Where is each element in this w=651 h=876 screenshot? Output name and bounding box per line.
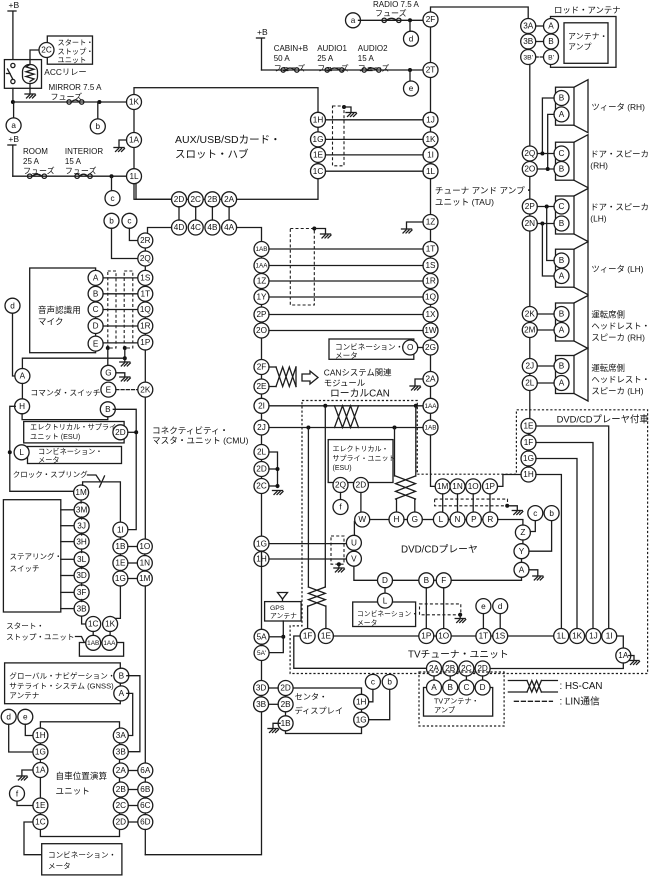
node f below ESU	[340, 493, 342, 500]
svg-text:B: B	[559, 310, 565, 319]
svg-text:2M: 2M	[524, 326, 536, 335]
connector L to combination meter	[384, 588, 386, 593]
svg-text:Z: Z	[520, 528, 525, 537]
headrest LH connectors B A	[554, 359, 569, 374]
connectors 1AA 1AB TAU	[423, 398, 438, 413]
svg-text:+B: +B	[9, 0, 20, 10]
svg-text:AUX/USB/SDカード・: AUX/USB/SDカード・	[175, 134, 281, 146]
CMU side chain 1O-1N-1M and down	[144, 554, 146, 556]
svg-text:アンテナ: アンテナ	[9, 691, 39, 700]
connectors CMU 1AB 1AA 1Z 1Y 2P 2O	[254, 242, 269, 257]
connectors 2J 2L TAU	[522, 359, 537, 374]
svg-text:1B: 1B	[115, 542, 126, 551]
GPS antenna box	[265, 602, 302, 621]
wire 1E to 1P	[333, 635, 418, 637]
CMU mic side connectors 1S 1T 1Q 1R 1P	[138, 270, 153, 285]
CMU pin chain left column upper	[144, 241, 146, 351]
svg-text:1AB: 1AB	[424, 425, 436, 432]
svg-text:1W: 1W	[424, 326, 437, 335]
svg-text:3A: 3A	[523, 22, 534, 31]
DVD player connectors U V	[353, 522, 355, 536]
local CAN pair down to TV 1F 1E	[307, 428, 309, 588]
ESU box center	[328, 440, 393, 483]
steering connectors 3M 3J 3H 3L 3D 3F 3B	[61, 509, 74, 511]
dashed boundary DVD/CD player equipped vehicles	[290, 401, 647, 674]
svg-text:5A: 5A	[257, 632, 268, 641]
svg-text:b: b	[387, 678, 392, 687]
svg-text:1K: 1K	[105, 620, 116, 629]
svg-text:G: G	[412, 515, 418, 524]
svg-text:Y: Y	[519, 547, 525, 556]
svg-text:d: d	[6, 712, 11, 721]
svg-text:アンテナ: アンテナ	[270, 612, 297, 620]
wire ROOM/INTERIOR fuse row to 1L	[13, 175, 127, 177]
svg-text:H: H	[394, 515, 400, 524]
wire 1L to 2D row	[136, 184, 172, 200]
svg-text:ロッド・アンテナ: ロッド・アンテナ	[554, 5, 621, 15]
connector 1M clock spring	[74, 485, 89, 500]
wires AUX to TAU 1H-1J 1G-1K 1E-1I 1C-1L	[326, 119, 424, 121]
clock spring wire 1M up over to 1I	[83, 482, 121, 522]
svg-text:6C: 6C	[140, 801, 151, 810]
svg-text:e: e	[23, 712, 28, 721]
svg-text:運転席側: 運転席側	[591, 363, 625, 373]
svg-text:スイッチ: スイッチ	[10, 564, 40, 573]
node a	[13, 102, 15, 118]
wires B F down to TV tuner 1P 1O	[425, 588, 427, 629]
svg-text:2O: 2O	[524, 165, 535, 174]
wire +B row to 1K with MIRROR fuse	[13, 101, 127, 103]
svg-text:B: B	[559, 165, 565, 174]
svg-text:RADIO 7.5 A: RADIO 7.5 A	[373, 0, 419, 9]
shield dashed box on U V wires	[331, 536, 344, 564]
wire coil top to 2C of start-stop unit	[30, 50, 39, 65]
CMU pin chain right column	[261, 249, 263, 545]
svg-text:U: U	[351, 538, 357, 547]
wires CMU 1G/1H to U V of DVD player	[269, 543, 346, 545]
svg-text:4D: 4D	[174, 223, 185, 232]
svg-text:1K: 1K	[572, 632, 583, 641]
svg-text:2N: 2N	[525, 219, 536, 228]
svg-text:1Q: 1Q	[425, 293, 436, 302]
svg-text:3J: 3J	[77, 521, 86, 530]
display connectors 1H 1G right	[354, 694, 369, 709]
antenna amp outer box	[551, 17, 617, 68]
svg-text:メータ: メータ	[48, 862, 71, 871]
connectors 2P 2N TAU	[522, 199, 537, 214]
shield dashed box on DVD L-R stubs	[435, 499, 508, 506]
connector 2C start-stop unit	[39, 43, 54, 58]
svg-text:フューズ: フューズ	[375, 8, 407, 18]
svg-text:TVチューナ・ユニット: TVチューナ・ユニット	[408, 649, 509, 661]
svg-text:G: G	[105, 368, 111, 377]
svg-text:GPS: GPS	[270, 605, 285, 612]
connector 2T TAU	[423, 63, 438, 78]
svg-text:6B: 6B	[140, 785, 151, 794]
svg-text:1G: 1G	[523, 454, 534, 463]
svg-text:グローバル・ナビゲーション・: グローバル・ナビゲーション・	[9, 671, 115, 681]
svg-text:2D: 2D	[356, 481, 367, 490]
svg-text:INTERIOR: INTERIOR	[65, 147, 103, 156]
unit connectors right 3A 3B 2A 2B 2C 2D	[113, 728, 128, 743]
svg-text:1P: 1P	[140, 338, 151, 347]
svg-text:E: E	[106, 385, 112, 394]
svg-text:L: L	[439, 515, 444, 524]
nodes c b to display	[365, 674, 380, 689]
svg-text:1L: 1L	[129, 172, 139, 181]
ESU connectors 2Q 2D	[333, 478, 348, 493]
stub wires 1M-L 1N-N 1O-P 1P-R	[442, 494, 444, 512]
connectors 1C 1K start-stop	[86, 617, 101, 632]
start-stop unit box (top)	[47, 36, 92, 64]
CAN twisted pair to CAN system modules	[269, 366, 276, 368]
svg-text:ドア・スピーカ: ドア・スピーカ	[590, 149, 649, 159]
svg-text:1E: 1E	[313, 151, 324, 160]
wire 1G down to 1K	[110, 586, 120, 618]
svg-text:A: A	[559, 326, 565, 335]
svg-text:e: e	[481, 602, 486, 611]
steering side chain 1I-1B-1E-1G	[119, 537, 121, 539]
node b	[97, 102, 99, 119]
wire F to A	[451, 577, 521, 580]
pair wires 2x-6x	[128, 770, 138, 772]
tweeter RH connectors B A	[554, 91, 569, 106]
chain stubs between option connectors	[528, 434, 530, 436]
svg-text:CANシステム関連: CANシステム関連	[324, 368, 392, 378]
connector L combination meter	[14, 445, 29, 460]
connectors 2R 2Q CMU	[138, 233, 153, 248]
tweeter RH speaker icon	[556, 80, 589, 133]
svg-text:1T: 1T	[141, 289, 151, 298]
wire coil to ground	[29, 84, 31, 95]
stub wires 2x to letter connectors	[433, 676, 435, 680]
svg-text:コンビネーション・: コンビネーション・	[48, 851, 116, 860]
svg-text:2K: 2K	[525, 310, 536, 319]
svg-text:3M: 3M	[76, 505, 88, 514]
svg-text:1H: 1H	[523, 470, 534, 479]
svg-text:3H: 3H	[76, 537, 87, 546]
commander switch connector E dashed LIN to 2K	[101, 382, 116, 397]
svg-text:チューナ アンド アンプ・: チューナ アンド アンプ・	[435, 186, 533, 196]
connector 2A TAU with ground	[423, 372, 438, 387]
svg-text:マイク: マイク	[38, 317, 64, 327]
connectors 2Q 2O TAU speaker out	[522, 146, 537, 161]
wire 2F up to rod antenna 3A	[431, 7, 529, 19]
svg-text:1G: 1G	[356, 715, 367, 724]
svg-text:d: d	[10, 301, 15, 310]
svg-text:2J: 2J	[525, 362, 534, 371]
connectors 2L 2D 2C CMU grounded	[254, 445, 269, 460]
svg-text:b: b	[96, 122, 101, 131]
DVD player connectors W H G L N P R	[355, 512, 370, 527]
chain 6A-6D and down wire to CMU bus	[144, 778, 146, 782]
svg-text:A: A	[548, 22, 554, 31]
bus segments through 5A 5A'	[261, 644, 263, 645]
voice mic box	[30, 268, 96, 353]
svg-text:マスタ・ユニット (CMU): マスタ・ユニット (CMU)	[152, 436, 249, 446]
headrest speaker LH icon	[556, 348, 589, 401]
svg-text:コンビネーション・: コンビネーション・	[357, 609, 418, 618]
connectors 2D 2C 2B 2A AUX hub bottom	[172, 192, 187, 207]
svg-text:ステアリング・: ステアリング・	[10, 551, 63, 561]
wires 2L 2D 2C to common ground	[269, 452, 278, 488]
svg-text:a: a	[351, 16, 356, 25]
wires mic to CMU	[103, 277, 138, 279]
svg-text:1T: 1T	[479, 632, 489, 641]
DVD bottom connectors D B F	[378, 573, 393, 588]
door speaker RH connectors C B	[554, 146, 569, 161]
wire e to 1H	[25, 724, 33, 735]
svg-text:C: C	[93, 305, 99, 314]
svg-text:DVD/CDプレーヤ付車: DVD/CDプレーヤ付車	[557, 414, 649, 425]
svg-text:スロット・ハブ: スロット・ハブ	[175, 148, 249, 161]
svg-text:2L: 2L	[257, 448, 267, 457]
svg-text:1L: 1L	[557, 632, 567, 641]
combination meter box bottom	[42, 844, 122, 875]
local CAN pair down to ESU H G	[394, 428, 396, 477]
svg-text:A: A	[559, 110, 565, 119]
svg-text:1J: 1J	[426, 115, 435, 124]
svg-text:2C: 2C	[256, 482, 267, 491]
speaker bus from 3B' down TAU right side	[527, 33, 529, 36]
commander switch connector G with grounds	[107, 348, 109, 365]
svg-text:1E: 1E	[321, 632, 332, 641]
AUX/USB/SD card slot hub unit box	[134, 88, 318, 200]
wire 1S to 1L	[508, 635, 554, 637]
svg-text:1B: 1B	[281, 719, 292, 728]
svg-text:2C: 2C	[116, 801, 127, 810]
svg-text:AUDIO1: AUDIO1	[317, 44, 347, 53]
svg-text:P: P	[471, 515, 477, 524]
svg-text:B: B	[105, 405, 111, 414]
mic shield dashed boxes	[108, 271, 116, 348]
wires W-H G-L chain	[370, 519, 389, 521]
svg-text:2D: 2D	[256, 465, 267, 474]
wires 3A-A 3B-B	[536, 25, 544, 27]
svg-text:B: B	[548, 37, 554, 46]
svg-text:ユニット (ESU): ユニット (ESU)	[30, 432, 80, 441]
svg-text:D: D	[93, 322, 99, 331]
svg-text:コネクティビティ・: コネクティビティ・	[152, 426, 228, 436]
wires CMU to TAU rows	[269, 248, 423, 250]
wires 2K-B 2M-A	[537, 313, 554, 315]
nodes d e bottom	[1, 709, 16, 724]
svg-text:3D: 3D	[76, 571, 87, 580]
svg-text:1M: 1M	[437, 482, 449, 491]
start-stop connector box with 1AB 1AA	[92, 632, 94, 636]
svg-text:2J: 2J	[257, 423, 266, 432]
svg-text:c: c	[127, 216, 131, 225]
connector pair 1I	[113, 522, 128, 537]
svg-text:1A: 1A	[129, 136, 140, 145]
svg-text:2K: 2K	[140, 385, 151, 394]
DVD option connectors 1E 1F 1G 1H	[521, 419, 536, 434]
svg-text:TVアンテナ・: TVアンテナ・	[434, 697, 479, 706]
wire V down to D B F A chain	[354, 566, 378, 580]
DVD player connectors Z Y A right	[515, 525, 530, 540]
wire R to Z	[498, 520, 523, 526]
svg-text:3L: 3L	[77, 555, 87, 564]
svg-text:d: d	[498, 602, 503, 611]
ground for 1A	[22, 770, 33, 776]
svg-text:4B: 4B	[207, 223, 218, 232]
TV antenna amp box	[424, 688, 493, 717]
node d to commander A	[5, 298, 20, 313]
wires 2J-B 2L-A	[537, 365, 554, 367]
svg-text:F: F	[441, 576, 446, 585]
wire 4A to CMU 1AB	[237, 228, 262, 242]
svg-text:クロック・スプリング: クロック・スプリング	[13, 469, 88, 479]
TV antenna amp connectors A B C D	[427, 680, 442, 695]
node c power tag	[111, 176, 113, 190]
svg-text:1M: 1M	[139, 574, 151, 583]
tweeter LH speaker icon	[556, 242, 589, 295]
steering pin chain	[80, 500, 82, 503]
svg-text:4A: 4A	[224, 223, 235, 232]
TV antenna connectors 2A 2B 2C 2D	[427, 661, 442, 676]
connectors 4D 4C 4B 4A below	[172, 220, 187, 235]
connectors 3D 3B display side	[254, 681, 269, 696]
door speaker LH connectors C B	[554, 199, 569, 214]
svg-text:ACCリレー: ACCリレー	[44, 67, 86, 77]
svg-text:2I: 2I	[258, 401, 265, 410]
ground for 1B	[273, 723, 280, 728]
svg-text:(ESU): (ESU)	[333, 465, 352, 472]
svg-text:15 A: 15 A	[65, 157, 82, 166]
svg-text:1I: 1I	[606, 632, 613, 641]
unit connectors left 1H 1G 1A 1E 1C	[33, 728, 48, 743]
pair wires	[128, 546, 137, 548]
antenna side connectors A B B'	[544, 19, 559, 34]
svg-text:1A: 1A	[618, 651, 629, 660]
svg-text:1P: 1P	[421, 632, 432, 641]
svg-text:2O: 2O	[256, 326, 267, 335]
svg-text:A: A	[559, 379, 565, 388]
svg-text:スピーカ (LH): スピーカ (LH)	[591, 386, 643, 396]
svg-text:E: E	[93, 339, 99, 348]
wire 1I to 1A	[617, 636, 624, 648]
svg-text:C: C	[559, 202, 565, 211]
center display box	[286, 688, 362, 734]
svg-text:+B: +B	[257, 27, 268, 37]
vertical stubs 2x to 4x connectors	[178, 207, 180, 220]
TV antenna amp dashed box	[419, 672, 504, 726]
svg-text:ROOM: ROOM	[23, 147, 48, 156]
svg-text:1O: 1O	[468, 482, 479, 491]
svg-text:MIRROR 7.5 A: MIRROR 7.5 A	[49, 83, 103, 92]
svg-text:c: c	[110, 194, 114, 203]
commander switch connector B	[100, 402, 115, 417]
svg-text:A: A	[20, 372, 26, 381]
svg-text:1Y: 1Y	[256, 293, 267, 302]
svg-text:1N: 1N	[452, 482, 463, 491]
svg-text:3A: 3A	[116, 731, 127, 740]
svg-text:1C: 1C	[88, 620, 99, 629]
dead reckoning unit box	[40, 722, 119, 837]
legend HS-CAN twisted pair	[508, 680, 527, 682]
svg-text:1X: 1X	[425, 310, 436, 319]
GPS antenna symbol	[278, 593, 288, 600]
legend LIN dashed	[514, 700, 552, 702]
svg-text:B: B	[447, 683, 453, 692]
antenna connectors 3A 3B 3B'	[521, 19, 536, 34]
svg-text:2A: 2A	[116, 766, 127, 775]
wire B right down to ESU junction and 1I	[113, 409, 136, 529]
svg-text:2Q: 2Q	[335, 481, 346, 490]
svg-text:1O: 1O	[139, 542, 150, 551]
node c to Z	[528, 506, 543, 521]
shield dashed box on B F wires	[420, 604, 461, 615]
svg-text:e: e	[409, 84, 414, 93]
TV tuner connectors 1P 1O 1T 1S	[419, 629, 434, 644]
svg-text:2P: 2P	[256, 310, 267, 319]
svg-text:R: R	[487, 515, 493, 524]
mic connectors A-E	[88, 270, 103, 285]
GNSS antenna box	[5, 663, 121, 704]
svg-text:2Q: 2Q	[140, 254, 151, 263]
svg-text:5A': 5A'	[257, 650, 266, 657]
display connectors 2D 2B 1B	[278, 681, 293, 696]
connector 2D ESU	[113, 425, 128, 440]
svg-text:ヘッドレスト・: ヘッドレスト・	[591, 321, 650, 331]
connector 1K AUX hub	[127, 95, 142, 110]
svg-text:6A: 6A	[140, 766, 151, 775]
wires option connectors to TV tuner verticals	[536, 426, 609, 629]
connectors 1J 1K 1I 1L TAU	[423, 112, 438, 127]
svg-text:B: B	[559, 219, 565, 228]
connector 1L AUX hub	[127, 169, 142, 184]
svg-text:2F: 2F	[257, 363, 267, 372]
TV tuner connectors 1L 1K 1J 1I	[554, 629, 569, 644]
svg-text:25 A: 25 A	[23, 157, 40, 166]
svg-text:c: c	[371, 678, 375, 687]
svg-text:1E: 1E	[523, 422, 534, 431]
connectors 6A 6B 6C 6D	[138, 763, 153, 778]
GPS stem to 5A 5A'	[269, 621, 283, 653]
svg-text:1G: 1G	[313, 135, 324, 144]
svg-text:アンテナ・: アンテナ・	[568, 32, 608, 41]
svg-text:サテライト・システム (GNSS): サテライト・システム (GNSS)	[9, 681, 114, 690]
svg-text:1E: 1E	[115, 559, 126, 568]
nodes e d above TV tuner	[476, 599, 491, 614]
svg-text:B: B	[559, 362, 565, 371]
svg-text:B: B	[93, 289, 99, 298]
GNSS connectors B A	[114, 668, 129, 683]
svg-text:3B: 3B	[116, 748, 127, 757]
antenna amp inner box	[564, 23, 608, 64]
svg-text:3B: 3B	[77, 604, 88, 613]
svg-text:1S: 1S	[140, 274, 151, 283]
svg-text:2C: 2C	[41, 46, 52, 55]
svg-text:1C: 1C	[313, 167, 324, 176]
svg-text:メータ: メータ	[38, 455, 60, 464]
connectors 2K 2M TAU	[522, 307, 537, 322]
steering switch box	[3, 500, 60, 612]
svg-text:ストップ・ユニット: ストップ・ユニット	[6, 633, 74, 642]
svg-text:エレクトリカル・: エレクトリカル・	[333, 445, 389, 453]
svg-text:50 A: 50 A	[274, 54, 291, 63]
svg-text:2B: 2B	[281, 700, 292, 709]
svg-text:音声認識用: 音声認識用	[38, 304, 81, 315]
wire TAU 1AB down to DVD 1M	[431, 435, 436, 486]
svg-text:B': B'	[548, 54, 554, 61]
svg-text:1E: 1E	[35, 801, 46, 810]
connector 2F TAU	[423, 12, 438, 27]
svg-text:ディスプレイ: ディスプレイ	[295, 706, 344, 716]
svg-text:2D: 2D	[174, 195, 185, 204]
connector 2K CMU	[144, 350, 146, 539]
tweeter LH wires from 2P/2N junctions	[547, 207, 554, 261]
